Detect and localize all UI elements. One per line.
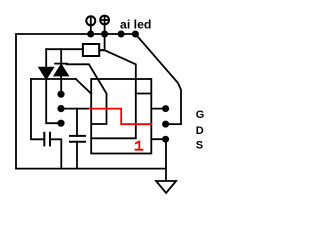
node pad1 bbox=[58, 92, 63, 97]
wire D2 anode down bbox=[60, 76, 62, 92]
box U1 partition bbox=[91, 94, 136, 139]
wire S stub bbox=[151, 138, 165, 140]
node at P1 bbox=[88, 31, 93, 36]
stem P1 bbox=[90, 25, 92, 32]
resistor R1 bbox=[83, 44, 99, 56]
capacitor C2 bbox=[70, 136, 85, 142]
svg-text:G: G bbox=[196, 109, 205, 121]
svg-text:D: D bbox=[196, 125, 204, 137]
ground bbox=[156, 181, 176, 193]
top wire bbox=[16, 34, 166, 169]
pin mark inside P1 bbox=[90, 18, 92, 24]
wire pad2 right bbox=[61, 108, 90, 110]
wire C1 left leg bbox=[31, 79, 44, 139]
node ai bbox=[119, 31, 124, 36]
label net 1 bbox=[136, 142, 143, 150]
stem P2 bbox=[104, 25, 106, 33]
wire resistor left feed bbox=[46, 48, 83, 50]
wire pad3 to D1 leg bbox=[46, 79, 61, 123]
wire net1 red bbox=[90, 109, 152, 125]
node D bbox=[163, 122, 168, 127]
node at P2 bbox=[102, 31, 107, 36]
wire C1 right leg bbox=[50, 139, 61, 168]
svg-text:ai led: ai led bbox=[120, 18, 151, 32]
wire C2 top stem bbox=[76, 109, 78, 136]
wire A diode rail bbox=[31, 78, 76, 80]
wire anode D1 bbox=[45, 49, 47, 67]
wire resistor to subbox diagonal bbox=[99, 50, 135, 93]
wire C2 bottom stem bbox=[76, 142, 78, 169]
node G bbox=[163, 106, 168, 111]
terminal circle P1 bbox=[86, 16, 95, 25]
wire bevel into box edge bbox=[76, 79, 91, 94]
diode D2 bar bbox=[55, 63, 67, 65]
terminal circle P2 bbox=[100, 16, 109, 25]
node pad2 bbox=[58, 106, 63, 111]
wire S to ground bbox=[165, 139, 167, 181]
diode D2 bbox=[54, 65, 68, 76]
node pad3 bbox=[58, 121, 63, 126]
box U1 bbox=[91, 79, 151, 154]
plus mark inside P2 bbox=[102, 17, 108, 23]
box U1 subbox bottom bbox=[136, 93, 152, 95]
wire W2 from D2 bar hook bbox=[67, 64, 107, 124]
wire P2 to resistor junction bbox=[99, 35, 104, 50]
node S bbox=[163, 137, 168, 142]
wire led terminal diagonal to D pin bbox=[135, 34, 181, 124]
diode D1 bbox=[39, 68, 53, 79]
wire G stub bbox=[151, 108, 165, 110]
capacitor C1 bbox=[44, 133, 50, 146]
wire cathode D2 bbox=[60, 49, 62, 63]
svg-text:S: S bbox=[196, 139, 203, 151]
node led bbox=[133, 31, 138, 36]
